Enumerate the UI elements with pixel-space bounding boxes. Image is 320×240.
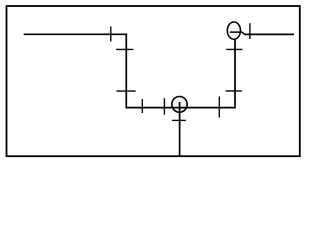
pin tick T6 on W4 — [172, 119, 186, 121]
pin tick T1 on W1 — [110, 27, 112, 42]
connector bubble C2 — [227, 22, 240, 39]
pin tick T7 on W3 — [218, 97, 220, 118]
pin tick T2 on W2 — [116, 48, 133, 50]
wire W3 bottom horizontal — [126, 107, 236, 109]
pin tick T10 on W6 — [249, 23, 251, 39]
wire W6 top-right horizontal — [244, 33, 294, 35]
pin tick T4 on W3 — [141, 99, 143, 113]
pin tick T9 on W5 — [226, 48, 242, 50]
connector bubble C1 — [172, 97, 187, 113]
border frame — [7, 6, 300, 156]
wire W1 top-left horizontal — [24, 33, 127, 35]
wire W4 vertical below C1 — [179, 102, 181, 156]
wire W5 right vertical — [234, 40, 236, 107]
wire stub from C2 — [230, 32, 245, 34]
pin tick T5 on W3 — [163, 98, 165, 114]
pin tick T3 on W2 — [117, 90, 136, 92]
wire W2 left vertical — [125, 34, 127, 109]
pin tick T8 on W5 — [226, 90, 242, 92]
